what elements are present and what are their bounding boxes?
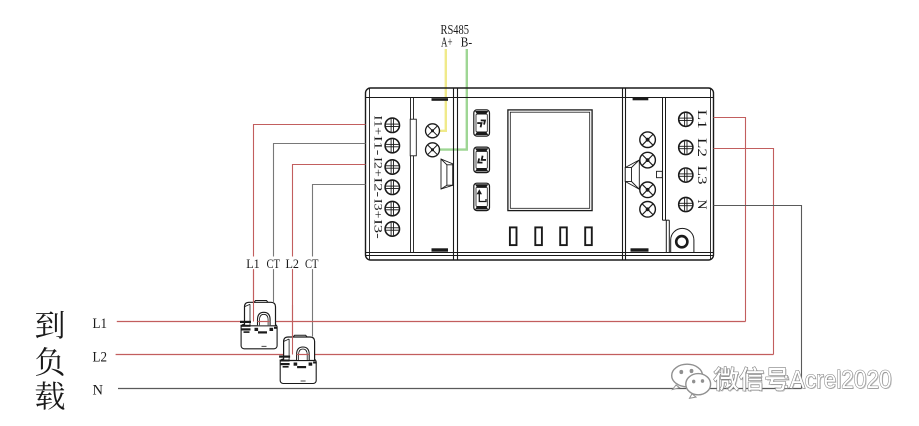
button enter (return arrow) xyxy=(474,183,490,210)
CT clamp 2 xyxy=(279,335,317,383)
right column divider xyxy=(663,98,670,253)
wire I1- to CT1 xyxy=(274,144,366,303)
indicator slot 1 xyxy=(510,227,517,245)
svg-text:L1: L1 xyxy=(93,316,108,332)
wire L2 vertical through CT2 xyxy=(292,305,294,355)
RS485 terminal screw A+ xyxy=(426,124,440,138)
svg-text:CT: CT xyxy=(266,256,280,271)
svg-text:Acrel2020: Acrel2020 xyxy=(790,366,892,394)
wire L1 vertical through CT1 xyxy=(253,270,255,322)
svg-text:L2: L2 xyxy=(285,256,299,271)
svg-text:N: N xyxy=(93,383,104,399)
right bottom tab xyxy=(631,248,649,251)
svg-text:L1: L1 xyxy=(695,110,710,129)
wire L2 through CT2 xyxy=(297,354,310,356)
wire L1 through CT1 xyxy=(258,321,271,323)
line terminal screw N xyxy=(679,197,693,211)
right small screw 2 xyxy=(640,152,656,168)
wire I1+ to L1 xyxy=(254,125,366,319)
mounting hole xyxy=(676,236,687,247)
indicator slot 2 xyxy=(535,227,542,245)
svg-text:I2+: I2+ xyxy=(372,157,386,177)
watermark hao xyxy=(766,368,788,391)
divider left-middle section xyxy=(454,89,458,260)
RS485 terminal screw B- xyxy=(426,143,440,157)
watermark text shadow xyxy=(715,367,893,395)
svg-text:CT: CT xyxy=(305,256,319,271)
right small screw 3 xyxy=(640,182,656,198)
text dao (to) xyxy=(36,311,64,339)
svg-text:L2: L2 xyxy=(695,138,710,157)
watermark xin xyxy=(740,367,764,391)
mounting boss xyxy=(671,228,694,252)
button up (fast-forward arrow) xyxy=(474,110,490,136)
meter right inner line xyxy=(710,89,712,260)
svg-text:I2-: I2- xyxy=(372,178,386,198)
wire I2+ to L2 xyxy=(293,165,366,352)
line N xyxy=(118,388,802,390)
wire RS485 A+ yellow xyxy=(439,49,446,131)
svg-text:A+: A+ xyxy=(441,36,453,51)
right small screw 4 xyxy=(640,202,656,218)
watermark wei xyxy=(714,367,739,391)
wire label background xyxy=(243,257,322,270)
svg-text:L1: L1 xyxy=(246,256,260,271)
meter body xyxy=(366,88,714,260)
svg-text:I1-: I1- xyxy=(372,136,386,156)
line L2 xyxy=(116,354,774,356)
right small screw 1 xyxy=(640,132,656,148)
line L1 xyxy=(117,321,746,323)
indicator slot 3 xyxy=(560,227,567,245)
terminal screw I3- xyxy=(385,222,399,236)
LCD screen xyxy=(508,110,592,211)
wire L2 terminal to line xyxy=(714,149,774,355)
meter bottom inner lines xyxy=(366,253,713,256)
svg-text::: : xyxy=(783,367,789,393)
text zai (load2) xyxy=(36,381,65,409)
right top tab xyxy=(633,98,649,101)
wire N terminal to line xyxy=(714,206,802,389)
left DIN clip xyxy=(441,159,453,189)
text fu (load1) xyxy=(36,347,64,376)
svg-text:I1+: I1+ xyxy=(372,116,386,136)
wire L1 terminal to line xyxy=(714,118,746,322)
wire I2- to CT2 xyxy=(313,185,366,337)
line terminal screw L1 xyxy=(679,112,693,126)
left divider bump xyxy=(410,119,416,156)
terminal screw I3+ xyxy=(385,201,399,215)
line terminal screw L2 xyxy=(679,140,693,154)
terminal screw I1+ xyxy=(385,118,399,132)
svg-text:B-: B- xyxy=(461,36,473,51)
left bottom tab xyxy=(432,248,449,251)
meter outer case xyxy=(366,88,714,260)
line terminal screw L3 xyxy=(679,168,693,182)
divider middle-right section xyxy=(623,89,626,260)
button down (rewind arrow) xyxy=(474,147,490,173)
wire RS485 B- green xyxy=(439,49,467,150)
watermark wechat logo xyxy=(672,364,711,398)
left top tab xyxy=(432,98,449,101)
right DIN clip xyxy=(625,160,639,189)
svg-text:I3+: I3+ xyxy=(372,199,386,219)
terminal screw I2- xyxy=(385,180,399,194)
meter top inner line xyxy=(366,97,713,99)
svg-text:L2: L2 xyxy=(93,350,108,366)
left terminal divider xyxy=(411,98,414,253)
right divider notch xyxy=(657,171,663,177)
svg-text:N: N xyxy=(695,200,710,211)
terminal screw I2+ xyxy=(385,160,399,174)
svg-text:I3-: I3- xyxy=(372,219,386,239)
indicator slot 4 xyxy=(585,227,592,245)
meter left inner line xyxy=(369,89,371,260)
svg-text:L3: L3 xyxy=(695,166,710,185)
terminal screw I1- xyxy=(385,138,399,152)
CT clamp 1 xyxy=(240,301,278,349)
